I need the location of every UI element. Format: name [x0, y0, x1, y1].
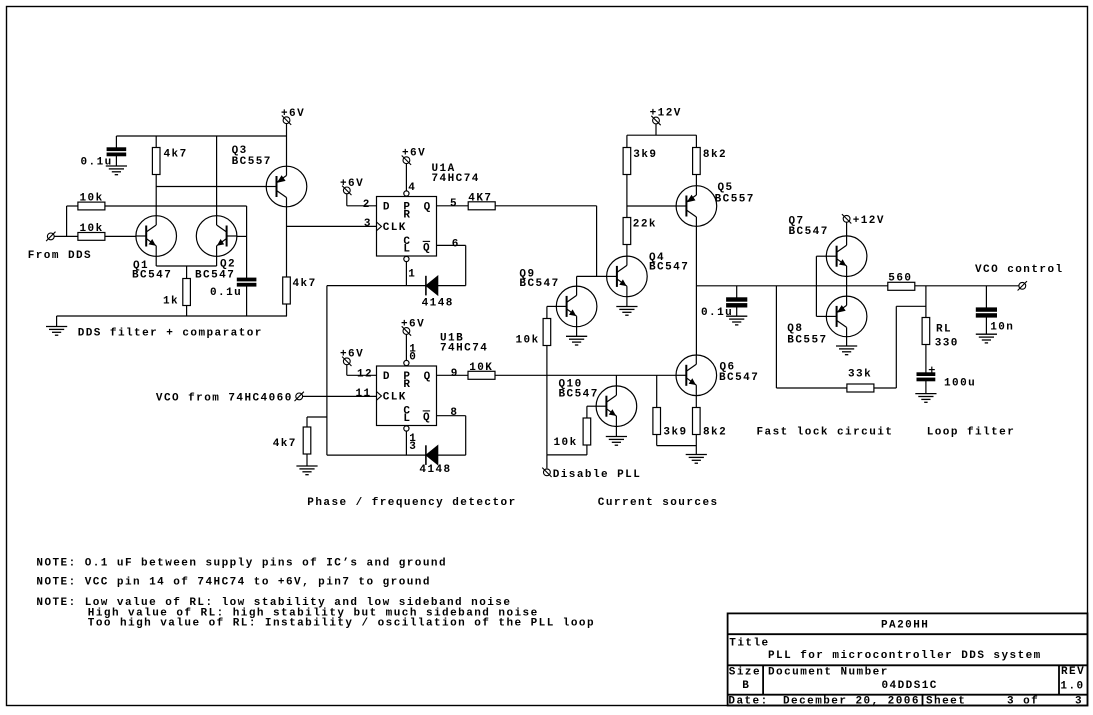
svg-text:0.1u: 0.1u: [210, 287, 242, 299]
svg-text:Too high value of RL: Instabil: Too high value of RL: Instability / osci…: [88, 617, 595, 629]
svg-text:BC547: BC547: [132, 270, 172, 282]
svg-text:PA20HH: PA20HH: [881, 619, 929, 631]
svg-text:Loop filter: Loop filter: [927, 427, 1016, 439]
svg-text:3: 3: [409, 441, 417, 453]
svg-text:9: 9: [451, 368, 459, 380]
svg-text:BC547: BC547: [195, 270, 235, 282]
svg-text:+6V: +6V: [401, 319, 425, 331]
svg-text:10k: 10k: [80, 223, 104, 235]
svg-text:12: 12: [357, 368, 373, 380]
svg-text:Size: Size: [729, 666, 761, 678]
svg-text:04DDS1C: 04DDS1C: [882, 680, 938, 692]
svg-text:6: 6: [452, 239, 460, 251]
svg-text:1.0: 1.0: [1060, 681, 1084, 693]
svg-text:4k7: 4k7: [164, 149, 188, 161]
svg-text:8: 8: [450, 407, 458, 419]
svg-text:3k9: 3k9: [663, 426, 687, 438]
svg-text:3 of: 3 of: [1007, 695, 1039, 707]
svg-text:BC547: BC547: [649, 262, 689, 274]
svg-text:1k: 1k: [163, 296, 179, 308]
svg-text:Title: Title: [729, 638, 769, 650]
svg-text:+6V: +6V: [402, 148, 426, 160]
svg-text:4148: 4148: [422, 297, 454, 309]
svg-text:BC547: BC547: [519, 278, 559, 290]
svg-text:+6V: +6V: [340, 349, 364, 361]
svg-text:B: B: [742, 680, 750, 692]
svg-text:2: 2: [363, 199, 371, 211]
svg-text:+6V: +6V: [340, 178, 364, 190]
svg-text:330: 330: [935, 338, 959, 350]
svg-text:+12V: +12V: [650, 107, 682, 119]
svg-text:1: 1: [408, 269, 416, 281]
svg-text:BC547: BC547: [719, 372, 759, 384]
svg-text:NOTE: O.1 uF between supply pi: NOTE: O.1 uF between supply pins of IC’s…: [36, 557, 447, 569]
svg-text:4: 4: [408, 182, 416, 194]
svg-text:Q5: Q5: [718, 182, 734, 194]
svg-text:8k2: 8k2: [703, 149, 727, 161]
svg-text:BC547: BC547: [789, 226, 829, 238]
svg-text:BC557: BC557: [787, 335, 827, 347]
svg-text:Current sources: Current sources: [598, 497, 719, 509]
svg-text:33k: 33k: [848, 369, 872, 381]
svg-text:Fast lock circuit: Fast lock circuit: [757, 427, 894, 439]
svg-text:Disable PLL: Disable PLL: [553, 469, 642, 481]
svg-text:BC557: BC557: [715, 193, 755, 205]
svg-text:BC547: BC547: [559, 388, 599, 400]
svg-text:560: 560: [888, 273, 912, 285]
svg-text:Phase / frequency detector: Phase / frequency detector: [307, 497, 516, 509]
svg-text:11: 11: [356, 388, 372, 400]
svg-text:0.1u: 0.1u: [701, 307, 733, 319]
svg-text:NOTE: VCC pin 14 of 74HC74 to: NOTE: VCC pin 14 of 74HC74 to +6V, pin7 …: [36, 576, 431, 588]
svg-text:VCO control: VCO control: [975, 264, 1064, 276]
svg-text:From DDS: From DDS: [28, 250, 92, 262]
svg-text:Sheet: Sheet: [926, 695, 966, 707]
svg-text:BC557: BC557: [232, 156, 272, 168]
svg-text:4K7: 4K7: [468, 193, 492, 205]
svg-text:+12V: +12V: [853, 215, 885, 227]
svg-text:10n: 10n: [990, 321, 1014, 333]
svg-text:0.1u: 0.1u: [81, 157, 113, 169]
svg-text:REV: REV: [1061, 666, 1085, 678]
svg-text:74HC74: 74HC74: [440, 342, 488, 354]
svg-text:3: 3: [364, 218, 372, 230]
svg-text:4k7: 4k7: [293, 278, 317, 290]
svg-text:22k: 22k: [633, 218, 657, 230]
svg-text:Date:: Date:: [728, 695, 768, 707]
svg-text:5: 5: [450, 198, 458, 210]
svg-text:4k7: 4k7: [273, 438, 297, 450]
svg-text:10K: 10K: [469, 362, 493, 374]
svg-text:10k: 10k: [516, 335, 540, 347]
svg-text:+6V: +6V: [281, 108, 305, 120]
svg-text:December 20, 2006: December 20, 2006: [783, 695, 920, 707]
svg-text:3: 3: [1075, 695, 1083, 707]
svg-text:10k: 10k: [554, 437, 578, 449]
svg-text:74HC74: 74HC74: [432, 173, 480, 185]
svg-text:0: 0: [409, 351, 417, 363]
svg-text:RL: RL: [936, 323, 952, 335]
svg-text:8k2: 8k2: [703, 426, 727, 438]
svg-text:3k9: 3k9: [633, 149, 657, 161]
svg-text:DDS filter + comparator: DDS filter + comparator: [78, 328, 263, 340]
svg-text:Document Number: Document Number: [768, 666, 889, 678]
svg-text:100u: 100u: [944, 378, 976, 390]
svg-text:PLL for microcontroller DDS sy: PLL for microcontroller DDS system: [768, 650, 1042, 662]
svg-text:Q8: Q8: [787, 323, 803, 335]
svg-text:VCO from 74HC4060: VCO from 74HC4060: [156, 392, 293, 404]
svg-text:4148: 4148: [419, 464, 451, 476]
